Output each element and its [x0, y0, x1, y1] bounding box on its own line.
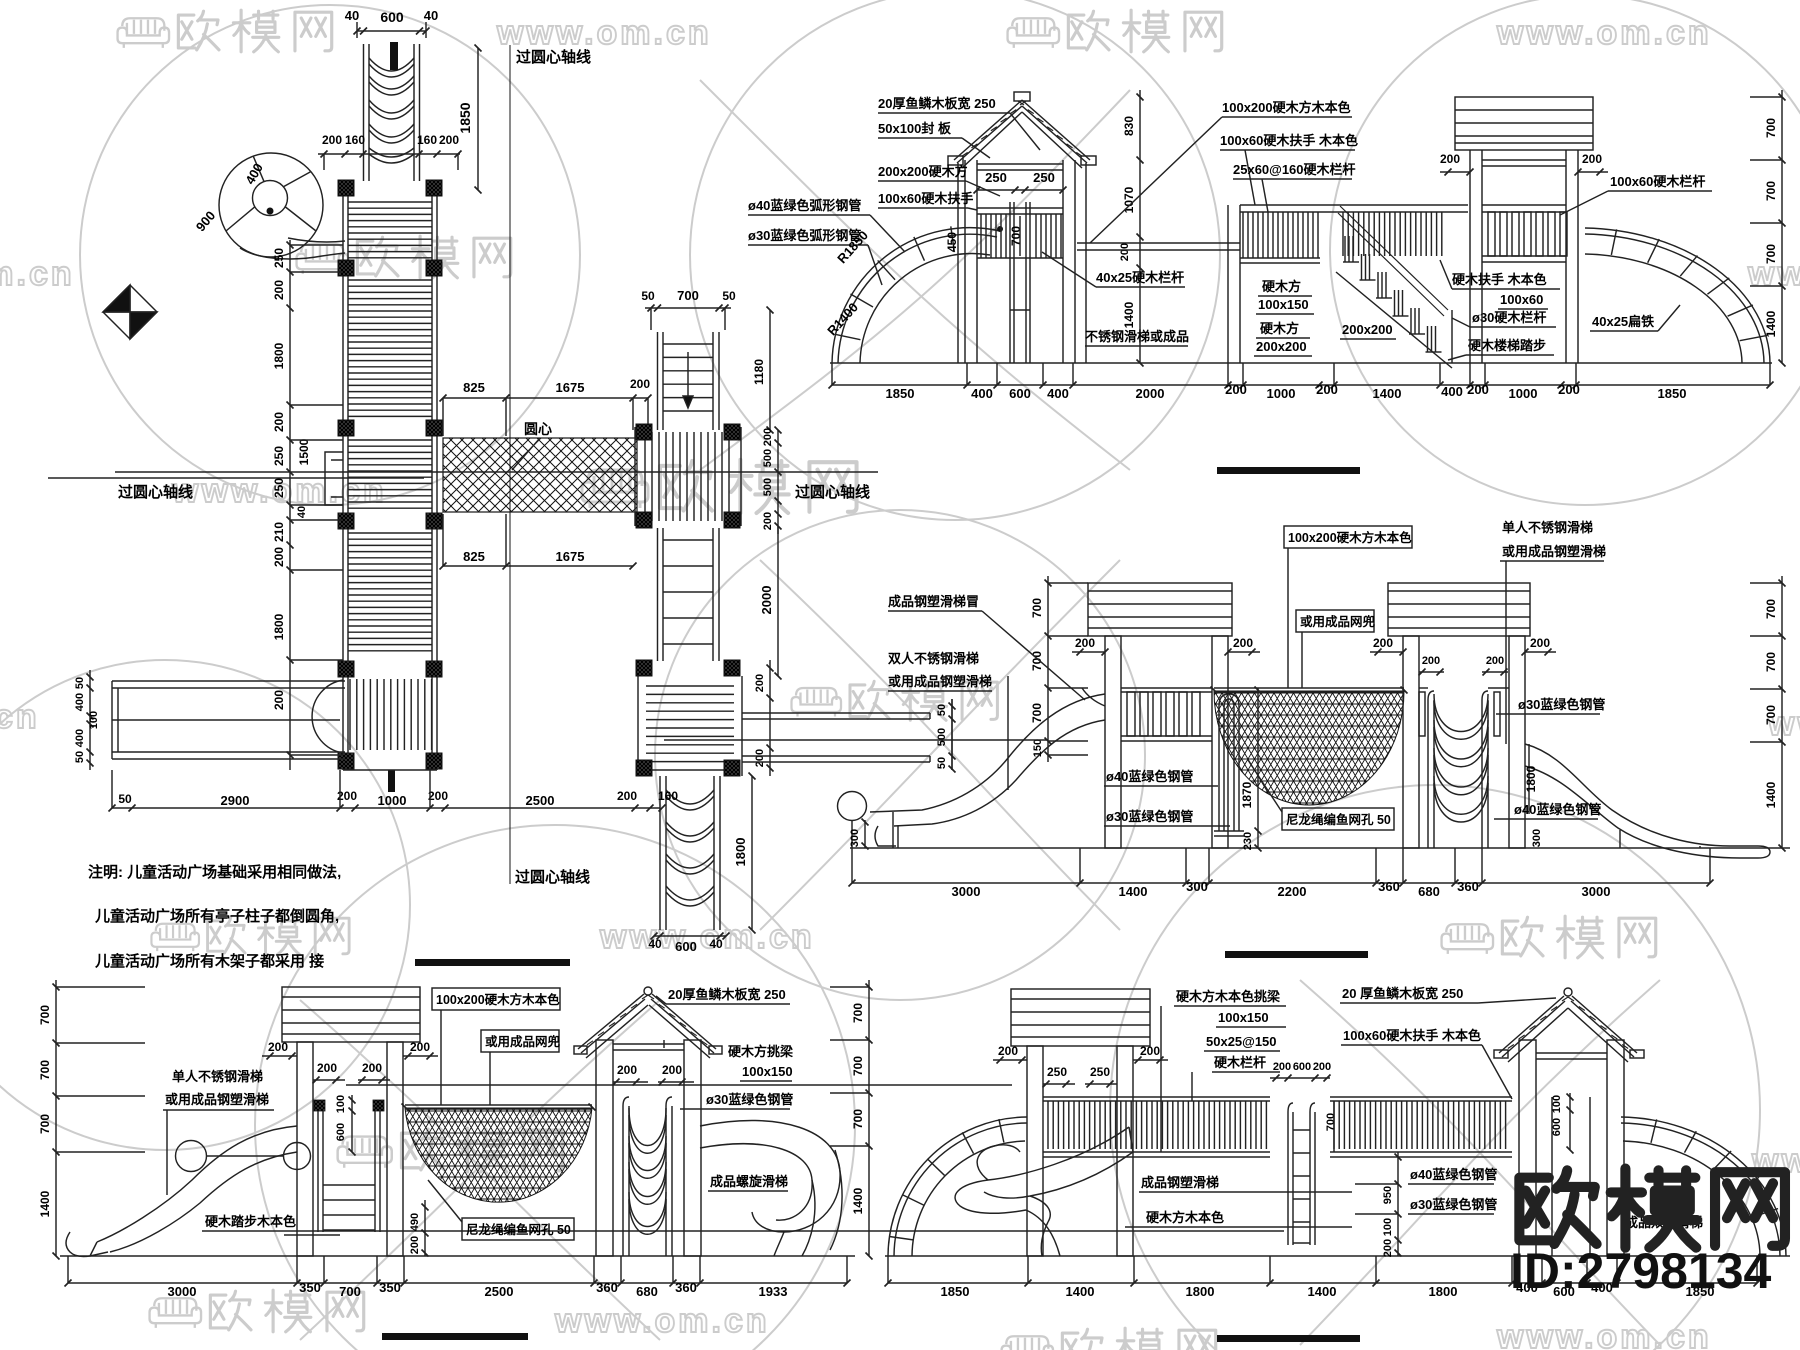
svg-text:250: 250 — [1047, 1065, 1067, 1079]
svg-text:200: 200 — [662, 1063, 682, 1077]
svg-text:ø40蓝绿色钢管: ø40蓝绿色钢管 — [1410, 1167, 1497, 1182]
svg-text:尼龙绳编鱼网孔 50: 尼龙绳编鱼网孔 50 — [466, 1222, 571, 1237]
svg-text:50: 50 — [641, 289, 655, 303]
svg-text:1400: 1400 — [38, 1190, 52, 1217]
E3 slide from tower — [97, 1126, 297, 1242]
svg-text:200: 200 — [1075, 636, 1095, 650]
svg-text:200: 200 — [1422, 655, 1440, 667]
svg-text:硬木方: 硬木方 — [1262, 279, 1301, 294]
E2 right tower roof — [1388, 583, 1530, 636]
E2 tower1 roof — [1088, 583, 1232, 636]
E4 tower2 gable roof — [1564, 988, 1572, 996]
svg-text:400: 400 — [74, 693, 86, 711]
horizontal centerline — [115, 471, 878, 473]
dim 1800 tube — [751, 776, 753, 930]
E2 ground line — [850, 847, 1790, 849]
svg-text:不锈钢滑梯或成品: 不锈钢滑梯或成品 — [1085, 329, 1189, 344]
bottom dim row of plan — [112, 807, 660, 809]
svg-text:40: 40 — [709, 937, 723, 951]
svg-text:儿童活动广场所有木架子都采用 接: 儿童活动广场所有木架子都采用 接 — [94, 952, 324, 970]
svg-text:830: 830 — [1122, 116, 1136, 136]
E2 left slide — [870, 694, 1105, 812]
crosshatch bridge — [443, 438, 637, 512]
svg-text:硬木楼梯踏步: 硬木楼梯踏步 — [1468, 338, 1546, 353]
svg-text:160: 160 — [417, 133, 437, 147]
svg-text:www.om.cn: www.om.cn — [496, 14, 712, 52]
E1 left climbing arc — [832, 228, 1000, 363]
svg-text:1850: 1850 — [457, 102, 473, 133]
svg-text:700: 700 — [1764, 705, 1778, 725]
left dim chain of strip — [289, 240, 291, 770]
strip planks sections (horizontal) — [348, 201, 432, 203]
svg-text:40x25硬木栏杆: 40x25硬木栏杆 — [1096, 270, 1184, 285]
E4 ground line — [885, 1255, 1790, 1257]
svg-text:1800: 1800 — [272, 342, 286, 369]
svg-text:200: 200 — [617, 1063, 637, 1077]
svg-text:50: 50 — [74, 677, 86, 689]
E3 tower1 dims 200 — [262, 1055, 297, 1057]
svg-text:或用成品钢塑滑梯: 或用成品钢塑滑梯 — [888, 674, 992, 689]
E2 tower1 posts — [1105, 636, 1121, 848]
dim 40 600 40 bottom — [654, 935, 726, 937]
svg-text:1800: 1800 — [1524, 765, 1538, 792]
rails right dims 50 500 50 — [951, 699, 953, 770]
svg-text:ø30蓝绿色弧形钢管: ø30蓝绿色弧形钢管 — [748, 228, 861, 243]
E4 tower1 flat roof — [1011, 989, 1150, 1046]
svg-text:200: 200 — [1440, 152, 1460, 166]
svg-text:200: 200 — [762, 512, 774, 530]
svg-text:200: 200 — [272, 412, 286, 432]
svg-text:200: 200 — [1486, 655, 1504, 667]
svg-text:200: 200 — [1313, 1061, 1331, 1073]
svg-text:硬木扶手 木本色: 硬木扶手 木本色 — [1452, 272, 1547, 287]
watermark circles — [80, 5, 580, 505]
svg-text:700: 700 — [38, 1005, 52, 1025]
svg-text:儿童活动广场所有亭子柱子都倒圆角,: 儿童活动广场所有亭子柱子都倒圆角, — [94, 907, 339, 925]
svg-text:600: 600 — [1293, 1061, 1311, 1073]
svg-text:20厚鱼鳞木板宽 250: 20厚鱼鳞木板宽 250 — [878, 96, 996, 111]
svg-text:3000: 3000 — [1582, 884, 1611, 899]
svg-text:360: 360 — [1378, 879, 1400, 894]
E2 tower2 posts — [1403, 636, 1419, 848]
svg-text:200: 200 — [1373, 636, 1393, 650]
svg-text:单人不锈钢滑梯: 单人不锈钢滑梯 — [1502, 520, 1593, 535]
rails extending right from platform2 — [742, 712, 930, 714]
E4 rail band 1 — [1043, 1096, 1270, 1098]
E1 stairs — [1340, 206, 1448, 310]
svg-text:50x25@150: 50x25@150 — [1206, 1034, 1277, 1049]
site logo omcn big — [1519, 1169, 1785, 1248]
svg-text:1850: 1850 — [1658, 386, 1687, 401]
svg-text:700: 700 — [38, 1114, 52, 1134]
svg-text:1180: 1180 — [752, 359, 766, 385]
svg-text:3000: 3000 — [952, 884, 981, 899]
right strip lower right dims 200/200 — [769, 660, 771, 776]
svg-text:硬木方挑梁: 硬木方挑梁 — [728, 1044, 794, 1059]
watermark row1 — [118, 10, 332, 52]
E1 right arc — [1585, 228, 1770, 363]
svg-text:600: 600 — [380, 9, 404, 25]
E4 bottom section bar — [1217, 1335, 1360, 1342]
svg-text:350: 350 — [379, 1280, 401, 1295]
E4 twisty slide — [955, 1127, 1129, 1213]
svg-text:200: 200 — [1273, 1061, 1291, 1073]
E2 tower2 inner tube frame — [1428, 691, 1434, 848]
svg-text:250: 250 — [1033, 170, 1055, 185]
svg-text:www.om.cn: www.om.cn — [1496, 1318, 1712, 1350]
svg-text:40x25扁铁: 40x25扁铁 — [1592, 314, 1654, 329]
svg-text:2500: 2500 — [485, 1284, 514, 1299]
E2 section bar — [1217, 467, 1360, 474]
E2 boxed labels — [1284, 526, 1412, 548]
dim 1850 right of tube — [477, 48, 479, 190]
watermark row5 — [151, 916, 349, 954]
svg-text:200: 200 — [272, 280, 286, 300]
svg-text:1400: 1400 — [851, 1187, 865, 1214]
bottom platform vertical planks — [349, 679, 351, 750]
svg-text:20 厚鱼鳞木板宽 250: 20 厚鱼鳞木板宽 250 — [1342, 986, 1463, 1001]
E4 dims 200 600 200 above ladder — [1270, 1077, 1330, 1079]
svg-text:200: 200 — [1582, 152, 1602, 166]
svg-text:1850: 1850 — [886, 386, 915, 401]
E4 tower2 posts — [1519, 1040, 1536, 1256]
svg-text:200: 200 — [754, 749, 766, 767]
svg-text:100x200硬木方木本色: 100x200硬木方木本色 — [1288, 530, 1412, 545]
E3 net — [405, 1108, 592, 1202]
E4 top section bar — [1225, 951, 1368, 958]
svg-text:400: 400 — [971, 386, 993, 401]
guide lines from chain to strip — [290, 244, 343, 246]
svg-text:700: 700 — [1030, 703, 1044, 723]
svg-text:700: 700 — [1764, 181, 1778, 201]
svg-text:1400: 1400 — [1066, 1284, 1095, 1299]
svg-text:200: 200 — [1119, 243, 1131, 261]
E1 tower2 dims 200 — [1440, 171, 1470, 173]
svg-text:200: 200 — [617, 789, 637, 803]
svg-text:www.om.cn: www.om.cn — [599, 918, 815, 956]
E1 tower2 posts — [1469, 150, 1471, 363]
svg-text:600: 600 — [1551, 1118, 1563, 1136]
svg-text:硬木方: 硬木方 — [1260, 321, 1299, 336]
ladder arrow — [687, 352, 689, 400]
svg-text:200: 200 — [317, 1061, 337, 1075]
E3 bottom dims — [68, 1282, 847, 1284]
left horizontal slide element (plan) — [112, 680, 345, 682]
svg-text:www.om.cn: www.om.cn — [1496, 14, 1712, 52]
svg-text:200: 200 — [1233, 636, 1253, 650]
svg-text:100: 100 — [335, 1095, 347, 1113]
svg-text:200: 200 — [754, 674, 766, 692]
svg-text:www.om.cn: www.om.cn — [554, 1302, 770, 1340]
svg-text:ø30硬木栏杆: ø30硬木栏杆 — [1472, 310, 1546, 325]
svg-text:350: 350 — [299, 1280, 321, 1295]
svg-text:100x60硬木扶手: 100x60硬木扶手 — [878, 191, 973, 206]
E1 tower1 posts — [964, 160, 966, 363]
E4 right arc — [1621, 1117, 1786, 1256]
svg-text:ø40蓝绿色钢管: ø40蓝绿色钢管 — [1106, 769, 1193, 784]
E1 center dim column — [1139, 90, 1141, 363]
right strip mid ladder — [657, 528, 659, 661]
svg-text:ø30蓝绿色钢管: ø30蓝绿色钢管 — [1410, 1197, 1497, 1212]
svg-text:ø30蓝绿色钢管: ø30蓝绿色钢管 — [706, 1092, 793, 1107]
E3 tower1 flat roof — [282, 987, 420, 1042]
E4 rail band 2 — [1330, 1096, 1512, 1098]
svg-text:700: 700 — [1325, 1113, 1337, 1131]
svg-text:硬木方木本色挑梁: 硬木方木本色挑梁 — [1176, 989, 1281, 1004]
svg-text:100x60: 100x60 — [1500, 292, 1543, 307]
svg-text:1400: 1400 — [1764, 781, 1778, 808]
left bump semicircle — [312, 680, 343, 753]
svg-text:200: 200 — [428, 789, 448, 803]
svg-text:680: 680 — [636, 1284, 658, 1299]
left element dims — [89, 670, 91, 770]
svg-text:1400: 1400 — [1122, 301, 1136, 328]
vertical centerline — [509, 45, 511, 884]
E3 dims 490 200 — [424, 1200, 426, 1256]
svg-text:成品钢塑滑梯冒: 成品钢塑滑梯冒 — [888, 594, 979, 609]
svg-text:1800: 1800 — [1186, 1284, 1215, 1299]
north symbol — [103, 285, 157, 339]
svg-text:700: 700 — [1030, 598, 1044, 618]
svg-text:1933: 1933 — [759, 1284, 788, 1299]
svg-text:1800: 1800 — [733, 838, 748, 867]
E2 tower1 dims 200 — [1072, 651, 1105, 653]
svg-text:1675: 1675 — [556, 380, 585, 395]
svg-text:300: 300 — [1186, 879, 1208, 894]
svg-text:100: 100 — [1382, 1218, 1394, 1236]
svg-text:200: 200 — [410, 1040, 430, 1054]
svg-text:600: 600 — [1009, 386, 1031, 401]
E2 small dims near rails — [951, 699, 953, 770]
svg-text:1000: 1000 — [378, 793, 407, 808]
svg-text:250: 250 — [985, 170, 1007, 185]
svg-text:1500: 1500 — [297, 438, 311, 465]
E1 stair balusters upper — [1342, 212, 1344, 256]
E1 tower1 platform rail — [977, 207, 1063, 209]
E1 rail band with balusters — [1240, 204, 1468, 206]
E1 ground line — [830, 362, 1772, 364]
E3 spiral slide — [700, 1121, 840, 1232]
svg-text:尼龙绳编鱼网孔 50: 尼龙绳编鱼网孔 50 — [1286, 812, 1391, 827]
svg-text:825: 825 — [463, 380, 485, 395]
E3 bottom section bar — [382, 1333, 528, 1340]
E4 bottom dims — [888, 1282, 1757, 1284]
svg-text:700: 700 — [1764, 599, 1778, 619]
svg-text:825: 825 — [463, 549, 485, 564]
svg-text:100x150: 100x150 — [1218, 1010, 1269, 1025]
svg-text:700: 700 — [1009, 226, 1023, 246]
svg-text:1400: 1400 — [1308, 1284, 1337, 1299]
plan view: slide tube at top (plan) — [363, 44, 365, 181]
svg-text:或用成品钢塑滑梯: 或用成品钢塑滑梯 — [1502, 544, 1606, 559]
svg-text:210: 210 — [272, 522, 286, 542]
svg-text:600: 600 — [335, 1123, 347, 1141]
svg-text:www.om.cn: www.om.cn — [0, 255, 75, 293]
svg-text:1675: 1675 — [556, 549, 585, 564]
svg-text:200: 200 — [1530, 636, 1550, 650]
svg-text:500: 500 — [762, 478, 774, 496]
E3 balls — [176, 1141, 207, 1172]
E3 right dim column — [868, 980, 870, 1256]
E2 net left pipe frame — [1219, 694, 1239, 831]
strip end mark bottom — [388, 770, 395, 792]
E3 ground line — [60, 1255, 855, 1257]
svg-text:700: 700 — [38, 1060, 52, 1080]
main vertical strip (plan): edges — [342, 181, 344, 770]
svg-text:200: 200 — [1140, 1044, 1160, 1058]
svg-text:100x150: 100x150 — [1258, 297, 1309, 312]
slide tube going down (plan) — [659, 776, 661, 930]
E2 right slide — [1525, 744, 1758, 846]
svg-text:200: 200 — [1382, 1239, 1394, 1257]
svg-text:700: 700 — [851, 1109, 865, 1129]
tube nested arcs — [369, 58, 414, 71]
svg-text:200: 200 — [762, 428, 774, 446]
svg-text:过圆心轴线: 过圆心轴线 — [795, 483, 870, 501]
svg-text:www.om.cn: www.om.cn — [0, 698, 40, 736]
svg-text:250: 250 — [272, 446, 286, 466]
svg-text:200: 200 — [362, 1061, 382, 1075]
svg-text:ø30蓝绿色钢管: ø30蓝绿色钢管 — [1106, 809, 1193, 824]
E2 tower2 dims 200 — [1370, 651, 1403, 653]
svg-text:过圆心轴线: 过圆心轴线 — [118, 483, 193, 501]
svg-text:700: 700 — [677, 288, 699, 303]
svg-text:160: 160 — [345, 133, 365, 147]
tube entry black bar — [390, 42, 398, 70]
svg-text:20厚鱼鳞木板宽 250: 20厚鱼鳞木板宽 250 — [668, 987, 786, 1002]
svg-text:200: 200 — [409, 1236, 421, 1254]
svg-text:250: 250 — [272, 478, 286, 498]
svg-text:200x200硬木方: 200x200硬木方 — [878, 164, 968, 179]
E2 right dim column — [1781, 576, 1783, 848]
svg-text:230: 230 — [1242, 832, 1254, 850]
svg-text:400: 400 — [1441, 384, 1463, 399]
E1 tower1 gable roof — [954, 100, 1090, 160]
svg-text:100x200硬木方木本色: 100x200硬木方木本色 — [436, 992, 560, 1007]
svg-text:硬木栏杆: 硬木栏杆 — [1214, 1055, 1266, 1070]
svg-text:700: 700 — [339, 1284, 361, 1299]
svg-text:注明: 儿童活动广场基础采用相同做法,: 注明: 儿童活动广场基础采用相同做法, — [88, 863, 341, 881]
svg-text:300: 300 — [1531, 829, 1543, 847]
bridge dims above — [443, 397, 648, 399]
svg-text:50x100封 板: 50x100封 板 — [878, 121, 952, 136]
svg-text:360: 360 — [1457, 879, 1479, 894]
E1 tower1 dims 250 250 — [977, 189, 1063, 191]
svg-text:700: 700 — [1764, 118, 1778, 138]
E3 tower2 dims 200 200 — [613, 1081, 648, 1083]
svg-text:2000: 2000 — [759, 586, 774, 615]
E2 tower1 baluster band — [1121, 687, 1212, 689]
svg-text:100: 100 — [1551, 1095, 1563, 1113]
svg-text:硬木踏步木本色: 硬木踏步木本色 — [205, 1214, 296, 1229]
svg-text:100x150: 100x150 — [742, 1064, 793, 1079]
spiral slide (plan) — [219, 153, 323, 257]
svg-text:700: 700 — [1764, 652, 1778, 672]
svg-text:1000: 1000 — [1267, 386, 1296, 401]
svg-text:3000: 3000 — [168, 1284, 197, 1299]
svg-text:1400: 1400 — [1119, 884, 1148, 899]
svg-text:成品钢塑滑梯: 成品钢塑滑梯 — [1141, 1175, 1219, 1190]
watermark row7 — [150, 1290, 364, 1332]
svg-text:1800: 1800 — [272, 613, 286, 640]
svg-text:450: 450 — [945, 232, 959, 252]
svg-text:500: 500 — [762, 449, 774, 467]
E2 bottom dims — [852, 882, 1710, 884]
svg-text:1800: 1800 — [1429, 1284, 1458, 1299]
E3 boxed labels — [432, 988, 560, 1010]
E1 handrail section posts — [1227, 205, 1229, 363]
svg-text:ø40蓝绿色弧形钢管: ø40蓝绿色弧形钢管 — [748, 198, 861, 213]
svg-text:200x200: 200x200 — [1342, 322, 1393, 337]
svg-text:2000: 2000 — [1136, 386, 1165, 401]
dim row 200 160 / 160 200 — [318, 153, 460, 155]
svg-text:360: 360 — [596, 1280, 618, 1295]
svg-text:过圆心轴线: 过圆心轴线 — [515, 868, 590, 886]
svg-text:2200: 2200 — [1278, 884, 1307, 899]
E2 ball — [838, 792, 867, 821]
svg-text:400: 400 — [74, 729, 86, 747]
right strip (plan): ladder top — [657, 332, 659, 430]
right strip platform2 — [637, 676, 639, 776]
svg-text:或用成品网兜: 或用成品网兜 — [1300, 614, 1376, 629]
svg-text:50: 50 — [722, 289, 736, 303]
svg-text:单人不锈钢滑梯: 单人不锈钢滑梯 — [172, 1069, 263, 1084]
svg-text:200: 200 — [998, 1044, 1018, 1058]
E1 beam between tower and rail — [1077, 242, 1240, 244]
svg-text:250: 250 — [1090, 1065, 1110, 1079]
E3 inner tube frame — [623, 1097, 629, 1256]
E4 tower1 dims — [993, 1059, 1027, 1061]
svg-text:200: 200 — [439, 133, 459, 147]
svg-text:200: 200 — [630, 377, 650, 391]
svg-text:2500: 2500 — [526, 793, 555, 808]
E2 tube U arcs — [1434, 694, 1488, 732]
svg-text:1400: 1400 — [1373, 386, 1402, 401]
left notch bracket — [325, 452, 343, 505]
svg-text:150: 150 — [1032, 739, 1044, 757]
svg-text:100x60硬木扶手 木本色: 100x60硬木扶手 木本色 — [1343, 1028, 1481, 1043]
svg-text:1000: 1000 — [1509, 386, 1538, 401]
E4 middle ladder — [1288, 1103, 1293, 1245]
svg-text:700: 700 — [1764, 244, 1778, 264]
section bar above bottom-left elevation — [415, 959, 570, 966]
spiral tail to platform — [240, 248, 345, 259]
svg-text:ID:2798134: ID:2798134 — [1510, 1243, 1771, 1299]
svg-text:100x60硬木栏杆: 100x60硬木栏杆 — [1610, 174, 1705, 189]
svg-text:250: 250 — [272, 248, 286, 268]
E4 left climbing arc — [888, 1117, 1027, 1256]
E3 tube U arcs — [629, 1108, 666, 1146]
E2 net — [1214, 691, 1404, 805]
dim 50 700 50 — [645, 307, 731, 309]
svg-text:ø40蓝绿色钢管: ø40蓝绿色钢管 — [1514, 802, 1601, 817]
svg-text:或用成品钢塑滑梯: 或用成品钢塑滑梯 — [165, 1092, 269, 1107]
svg-text:400: 400 — [1047, 386, 1069, 401]
svg-text:40: 40 — [424, 8, 438, 23]
svg-text:360: 360 — [675, 1280, 697, 1295]
svg-text:100x60硬木扶手 木本色: 100x60硬木扶手 木本色 — [1220, 133, 1358, 148]
E1 bottom dims — [832, 384, 1770, 386]
right strip platform1 — [634, 427, 636, 526]
E3 ladder in tower — [314, 1100, 325, 1111]
svg-text:600: 600 — [675, 939, 697, 954]
svg-text:或用成品网兜: 或用成品网兜 — [485, 1034, 561, 1049]
svg-text:50: 50 — [118, 792, 132, 806]
svg-text:40: 40 — [296, 506, 308, 518]
svg-text:成品螺旋滑梯: 成品螺旋滑梯 — [710, 1174, 788, 1189]
svg-text:硬木方木本色: 硬木方木本色 — [1146, 1210, 1224, 1225]
svg-text:490: 490 — [409, 1213, 421, 1231]
